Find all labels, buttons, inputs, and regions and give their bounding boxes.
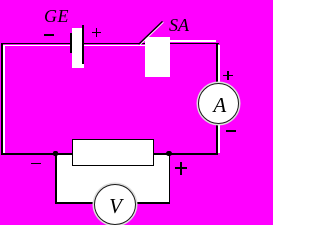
polarity: minus at battery left	[44, 34, 54, 36]
polarity: plus right of resistor (h-bar)	[175, 167, 187, 169]
node: white interior region of voltmeter loop	[56, 154, 170, 204]
wire: left wire halo (inner right side)	[3, 45, 5, 153]
wire: voltmeter loop right vertical	[169, 154, 171, 204]
label GE	[44, 6, 69, 27]
polarity: plus above ammeter (h-bar)	[223, 75, 233, 77]
battery GE: negative (short) plate	[70, 33, 72, 53]
wire: right vertical wire	[216, 43, 218, 155]
polarity: plus at battery right (v-bar)	[96, 28, 98, 37]
junction node: left dot	[53, 151, 58, 156]
wire: top horizontal wire	[1, 43, 219, 45]
switch SA: white body rectangle	[145, 37, 170, 77]
label SA	[169, 15, 189, 36]
wire: top wire halo (above, right of switch)	[170, 40, 216, 42]
wire: left vertical wire	[1, 43, 3, 155]
wire: voltmeter loop bottom horizontal	[55, 202, 170, 204]
polarity: plus at battery right (h-bar)	[92, 32, 102, 34]
junction node: right dot	[166, 151, 172, 157]
voltmeter V: circle	[94, 184, 136, 225]
ammeter A: letter	[199, 84, 240, 125]
polarity: minus left of resistor	[31, 163, 41, 165]
wire: top wire halo (below, left part)	[3, 45, 145, 47]
resistor R: rectangle box	[72, 139, 154, 166]
ammeter A: circle	[198, 83, 239, 124]
wire: right wire halo (outer right side)	[218, 45, 220, 153]
battery GE: white gap rectangle	[72, 28, 85, 68]
voltmeter V: letter	[95, 186, 137, 227]
battery GE: positive (long) plate	[82, 25, 84, 64]
wire: voltmeter loop left vertical	[55, 154, 57, 204]
polarity: plus right of resistor (v-bar)	[180, 162, 182, 174]
polarity: minus below ammeter	[226, 130, 236, 132]
polarity: plus above ammeter (v-bar)	[227, 71, 229, 80]
switch SA: lever (diagonal blade)	[130, 15, 175, 50]
wire: bottom horizontal wire (main)	[1, 153, 218, 155]
